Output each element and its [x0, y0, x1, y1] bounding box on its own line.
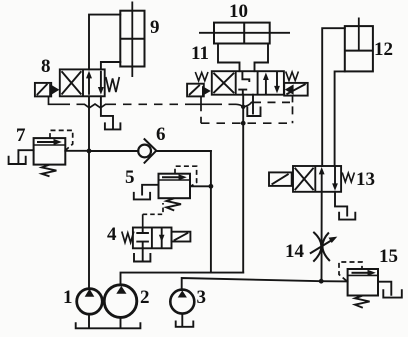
valve 11 center position blocked ports — [242, 71, 249, 82]
dashed pilot bottom line — [201, 122, 293, 124]
wire valve11 P down — [242, 95, 244, 273]
valve 4 flow arrow — [161, 228, 163, 249]
svg-text:5: 5 — [125, 167, 135, 188]
pump 3 — [170, 290, 194, 314]
left solenoid of valve 11 — [187, 84, 204, 97]
svg-text:11: 11 — [191, 43, 209, 64]
node relief5 outlet junction — [209, 184, 214, 189]
pump 1 — [77, 289, 103, 315]
solenoid of valve 13 — [269, 172, 292, 186]
wire pump1 to reservoir — [88, 314, 90, 327]
pilot dashed line from valve 8 to valve 11 network — [49, 96, 63, 104]
spring of relief valve 7 — [42, 165, 57, 177]
tank under valve 13 — [339, 213, 355, 220]
svg-text:8: 8 — [41, 56, 51, 77]
svg-text:12: 12 — [374, 39, 393, 60]
tank under pump 3 — [176, 322, 194, 327]
svg-text:4: 4 — [107, 224, 117, 245]
tank under pumps 1 and 2 — [76, 323, 141, 328]
wire valve11 right solenoid drain stub — [292, 96, 294, 102]
tank under valve 8 — [105, 123, 121, 129]
wire valve13 down through throttle to node — [321, 192, 323, 281]
wire node P1 to check valve 6 — [89, 150, 138, 152]
svg-text:13: 13 — [356, 169, 375, 190]
wire valve11 T to tank — [252, 95, 254, 114]
pilot line node to valve11 T line — [243, 102, 253, 106]
spring of valve 8 — [106, 77, 120, 92]
relief valve 5 — [159, 174, 191, 199]
svg-text:10: 10 — [229, 1, 248, 22]
node junction dots — [87, 105, 324, 284]
wire pump2 to reservoir — [120, 317, 122, 327]
svg-text:14: 14 — [285, 241, 305, 262]
throttle valve 14 — [310, 232, 333, 262]
pilot dashed of relief valve 7 — [50, 130, 73, 149]
pilot dashed of relief valve 15 — [339, 262, 362, 281]
wire relief5 outlet to riser — [190, 185, 211, 187]
right solenoid of valve 11 — [284, 83, 308, 96]
node throttle-pump3 junction — [319, 279, 324, 284]
tank left of relief 5 — [134, 193, 150, 200]
pump 2 — [104, 285, 137, 318]
wire pump3 to reservoir — [181, 314, 183, 326]
dashed pilot left side — [200, 104, 202, 123]
valve 11 crossed position — [213, 73, 234, 93]
right spring of valve 11 — [286, 72, 299, 81]
solenoid of valve 8 — [35, 83, 51, 97]
node pilot bottom junction — [241, 121, 246, 126]
wire relief7 to tank — [18, 150, 33, 162]
valve 11 body — [212, 71, 284, 95]
cylinder 12 — [345, 18, 373, 72]
svg-text:6: 6 — [156, 124, 166, 145]
tank left of relief 7 — [9, 157, 26, 164]
valve 11 parallel arrows — [266, 71, 277, 95]
wire pump3 output line to throttle node and relief15 — [182, 278, 348, 290]
wire pump2 output line — [121, 273, 244, 286]
wire cylinder12 top port down to valve13 — [322, 28, 345, 166]
solenoid of valve 4 — [172, 232, 191, 242]
svg-text:2: 2 — [140, 287, 150, 308]
spring of valve 13 — [342, 173, 354, 183]
valve 13 body — [293, 166, 341, 192]
node P1 junction — [87, 149, 92, 154]
valve 13 parallel arrows — [322, 166, 335, 192]
wire cylinder10 left port to valve11 A — [218, 44, 240, 72]
wire valve13 T to tank — [335, 192, 347, 216]
valve 8 parallel arrows — [89, 71, 101, 95]
wire pump1 to valve 8 P — [88, 96, 90, 287]
wire valve4 to tank — [142, 248, 144, 260]
tank under valve 4 — [134, 254, 150, 262]
relief valve 15 — [348, 269, 378, 296]
pilot dashed of relief valve 5 — [175, 166, 197, 186]
svg-text:9: 9 — [150, 17, 160, 38]
wire valve8 T to tank — [101, 96, 113, 128]
wire valve11 left solenoid drain stub — [200, 96, 202, 104]
wire relief15 to tank — [378, 282, 391, 295]
tank right of relief 15 — [383, 290, 402, 297]
left spring of valve 11 — [195, 72, 208, 81]
wire riser check6 line down to pump2 line — [210, 151, 212, 273]
cylinder 10 — [199, 23, 290, 44]
wire cylinder12 bottom port down to valve13 — [335, 71, 345, 166]
dashed pilot to right solenoid drain — [253, 102, 293, 123]
valve 8 crossed position — [62, 71, 82, 94]
valve 4 blocked ports — [136, 228, 149, 234]
cylinder 9 — [120, 2, 144, 78]
svg-text:3: 3 — [197, 287, 207, 308]
wire check valve 6 to riser — [156, 150, 211, 152]
wire valve8 A to cylinder9 top port — [89, 15, 120, 70]
tank under valve 11 — [247, 108, 260, 117]
svg-text:15: 15 — [379, 246, 398, 267]
spring of valve 4 — [122, 232, 134, 243]
wire valve8 B to cylinder9 bottom port — [101, 62, 120, 69]
spring of relief valve 15 — [355, 296, 370, 308]
check valve 6 — [138, 139, 156, 164]
valve 4 body — [133, 228, 172, 249]
valve 13 crossed position — [295, 168, 314, 190]
svg-text:7: 7 — [16, 125, 26, 146]
relief valve 7 — [34, 138, 66, 165]
node pilot-P junction — [241, 105, 245, 109]
wire relief7 outlet to node P1 — [65, 150, 89, 152]
wire relief5 to tank — [142, 185, 158, 195]
pilot line valve4 to relief valve 5 vent — [142, 214, 144, 227]
svg-text:1: 1 — [63, 287, 73, 308]
wire cylinder10 right port to valve11 B — [255, 44, 269, 72]
spring of relief valve 5 — [167, 198, 182, 210]
valve 8 body — [60, 69, 105, 96]
